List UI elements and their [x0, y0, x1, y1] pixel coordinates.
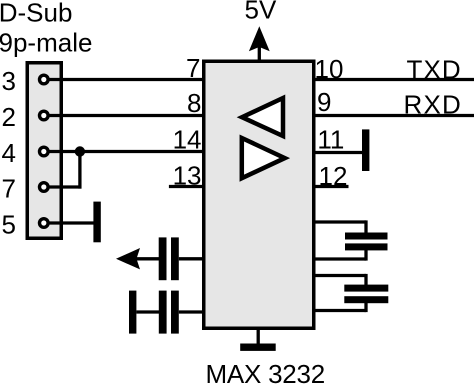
wire pin2 to IC pin8: [47, 114, 204, 117]
wire C4 top vertical: [364, 274, 367, 285]
IC inverter triangle left-pointing: [242, 98, 283, 136]
wire IC pin11 to ground: [314, 151, 363, 154]
svg-text:11: 11: [317, 124, 344, 154]
svg-text:RXD: RXD: [404, 89, 463, 119]
capacitor C1 right plate: [171, 237, 179, 280]
wire IC pin9 RXD out: [314, 114, 474, 117]
svg-text:TXD: TXD: [407, 54, 462, 84]
capacitor C3 top plate: [345, 233, 388, 240]
svg-text:5V: 5V: [245, 0, 277, 25]
wire C4 top from IC: [314, 274, 366, 277]
arrow terminal at C1 (points left): [116, 248, 140, 269]
svg-text:8: 8: [187, 88, 201, 118]
wire C4 bottom vertical: [364, 303, 367, 312]
svg-text:3: 3: [2, 66, 16, 96]
terminal bar at C2: [129, 291, 136, 334]
svg-text:9p-male: 9p-male: [0, 27, 92, 57]
svg-text:9: 9: [317, 87, 331, 117]
wire C1 to IC: [179, 257, 204, 260]
connector pin 5 circle: [40, 219, 49, 228]
IC pin 13 stub wire: [169, 185, 203, 188]
wire pin5 to ground: [47, 221, 94, 224]
IC ground shaft: [257, 328, 260, 345]
wire pin3 to IC pin7: [47, 78, 204, 81]
wire C3 top from IC: [314, 220, 366, 223]
svg-text:14: 14: [173, 125, 202, 155]
wire C2 to IC: [179, 310, 204, 313]
capacitor C2 left plate: [159, 291, 167, 334]
capacitor C2 right plate: [171, 291, 179, 334]
wire C3 bottom to IC: [314, 257, 366, 260]
IC U1 MAX3232 body: [204, 61, 314, 328]
svg-text:5: 5: [2, 210, 16, 240]
connector pin 4 circle: [40, 147, 49, 156]
wire C3 bottom vertical: [364, 250, 367, 261]
wire pin7 to pin4 vertical: [78, 152, 81, 189]
svg-text:2: 2: [2, 102, 16, 132]
wire IC pin10 TXD out: [314, 78, 474, 81]
connector pin 2 circle: [40, 111, 49, 120]
svg-text:7: 7: [2, 174, 16, 204]
svg-text:D-Sub: D-Sub: [0, 0, 72, 28]
connector pin 7 circle: [40, 183, 49, 192]
wire arrow to C1: [136, 257, 159, 260]
connector J1 body: [27, 63, 61, 239]
5V arrow shaft: [258, 38, 261, 60]
junction dot pin4/pin7: [75, 146, 85, 156]
capacitor C3 bottom plate: [345, 243, 388, 250]
wire C3 top vertical: [364, 220, 367, 233]
wire pin4 to IC pin14: [47, 150, 204, 153]
connector pin 3 circle: [40, 75, 49, 84]
wire C4 bottom to IC: [314, 309, 366, 312]
wire bar to C2: [136, 310, 159, 313]
svg-text:4: 4: [2, 138, 16, 168]
capacitor C1 left plate: [159, 237, 167, 280]
wire pin7 horizontal: [47, 185, 82, 188]
IC pin 12 stub wire: [314, 185, 349, 188]
capacitor C4 top plate: [344, 285, 388, 292]
svg-text:7: 7: [186, 53, 200, 83]
svg-text:MAX 3232: MAX 3232: [206, 359, 325, 384]
ground bar at pin5: [93, 202, 100, 243]
capacitor C4 bottom plate: [344, 296, 388, 303]
ground bar below IC: [240, 344, 276, 351]
5V arrowhead: [249, 26, 270, 51]
ground bar at pin11: [362, 129, 369, 171]
IC inverter triangle right-pointing: [242, 138, 285, 178]
